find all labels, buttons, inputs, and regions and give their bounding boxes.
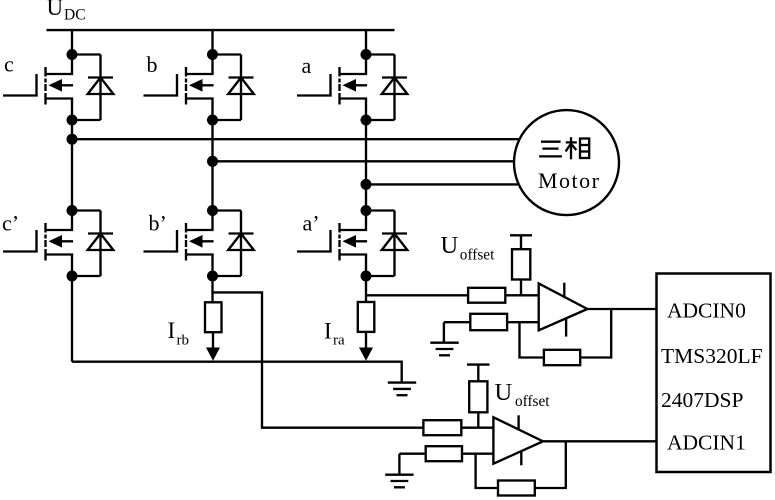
svg-text:ra: ra bbox=[333, 333, 345, 349]
wire leg a lower vertical bbox=[365, 254, 367, 302]
ground op2 bbox=[398, 454, 400, 474]
op1 supply pin top bbox=[563, 283, 565, 298]
svg-text:U: U bbox=[441, 232, 459, 259]
wire op2 offset to + bbox=[477, 412, 479, 427]
resistor op1 R+ input bbox=[468, 288, 505, 303]
wire leg a upper vertical bbox=[365, 30, 367, 74]
DC bus bbox=[47, 29, 395, 31]
svg-text:2407DSP: 2407DSP bbox=[661, 388, 743, 412]
wire b' branch to opamp2 bbox=[213, 292, 424, 427]
node phase b bbox=[207, 156, 218, 167]
op-amp U1 triangle bbox=[539, 283, 588, 330]
wire op1 + input bbox=[505, 294, 538, 296]
svg-text:ADCIN0: ADCIN0 bbox=[667, 299, 746, 323]
svg-text:rb: rb bbox=[177, 333, 190, 349]
wire op2 feedback left bbox=[476, 454, 498, 488]
transistor a (top) bbox=[297, 49, 407, 126]
wire leg a mid vertical bbox=[365, 99, 367, 230]
wire leg b upper vertical bbox=[211, 30, 213, 74]
resistor op1 R- input bbox=[470, 314, 507, 330]
svg-text:b’: b’ bbox=[149, 211, 167, 236]
arrow Irb bbox=[206, 348, 220, 361]
shunt resistor Ra bbox=[358, 302, 375, 349]
offset supply T op2 bbox=[467, 365, 490, 382]
transistor b (top) bbox=[144, 49, 254, 126]
wire leg c mid vertical bbox=[71, 99, 73, 230]
wire op2 feedback right bbox=[535, 441, 566, 488]
svg-text:TMS320LF: TMS320LF bbox=[661, 344, 763, 368]
svg-text:I: I bbox=[168, 318, 176, 343]
wire phase b bbox=[213, 160, 515, 162]
wire op1 - input bbox=[444, 321, 470, 323]
wire op1 feedback left bbox=[520, 322, 544, 357]
ground op1 bbox=[443, 322, 445, 342]
transistor c' (bottom) bbox=[3, 205, 113, 282]
wire leg b mid vertical bbox=[211, 99, 213, 230]
wire op2 output bbox=[543, 440, 657, 442]
resistor op2 R+ input bbox=[423, 420, 461, 435]
wire op1 offset to + bbox=[520, 280, 522, 296]
ground sense line bbox=[388, 383, 416, 396]
wire op1 feedback right bbox=[580, 309, 611, 358]
wire op2 - input bbox=[399, 453, 425, 455]
resistor op2 R- input bbox=[426, 446, 462, 461]
wire phase c bbox=[72, 138, 520, 140]
node phase c bbox=[67, 134, 78, 145]
svg-text:a: a bbox=[302, 53, 312, 78]
svg-text:U: U bbox=[47, 0, 64, 20]
svg-text:a’: a’ bbox=[303, 211, 320, 236]
transistor b' (bottom) bbox=[144, 205, 254, 282]
svg-text:c’: c’ bbox=[2, 211, 19, 236]
offset supply T op1 bbox=[510, 235, 532, 249]
resistor op1 feedback bbox=[544, 350, 580, 365]
resistor op2 offset bbox=[469, 381, 487, 412]
wire leg b lower vertical bbox=[211, 254, 213, 302]
wire a' branch to opamp1 bbox=[366, 294, 468, 296]
svg-text:Motor: Motor bbox=[538, 168, 601, 193]
svg-text:offset: offset bbox=[515, 393, 550, 410]
wire sense line bbox=[72, 362, 402, 382]
svg-text:DC: DC bbox=[64, 7, 86, 24]
motor M1 bbox=[514, 110, 619, 215]
wire phase a bbox=[366, 183, 519, 185]
op2 supply pin bottom bbox=[520, 451, 522, 466]
DSP box U2 bbox=[657, 274, 771, 473]
op-amp U2 triangle bbox=[493, 417, 543, 463]
svg-text:c: c bbox=[4, 52, 14, 77]
label 三相 (drawn strokes) bbox=[539, 137, 589, 159]
node phase a bbox=[361, 179, 372, 190]
op2 supply pin top bbox=[517, 415, 519, 430]
shunt resistor Rb bbox=[205, 302, 222, 348]
op1 supply pin bottom bbox=[565, 318, 567, 336]
wire op1 - to triangle bbox=[507, 321, 539, 323]
wire op2 - to triangle bbox=[462, 453, 493, 455]
arrow Ira bbox=[359, 348, 373, 361]
transistor c (top) bbox=[3, 49, 113, 126]
wire leg c lower vertical bbox=[71, 254, 73, 362]
svg-text:I: I bbox=[324, 319, 332, 344]
resistor op1 offset bbox=[512, 249, 530, 279]
wire op2 + input bbox=[461, 427, 493, 429]
transistor a' (bottom) bbox=[297, 205, 407, 282]
svg-text:offset: offset bbox=[460, 247, 495, 264]
svg-text:b: b bbox=[147, 52, 158, 77]
wire op1 output bbox=[587, 308, 656, 310]
wire leg c upper vertical bbox=[71, 30, 73, 74]
svg-text:ADCIN1: ADCIN1 bbox=[667, 431, 746, 455]
resistor op2 feedback bbox=[498, 481, 535, 496]
svg-text:U: U bbox=[495, 379, 513, 406]
